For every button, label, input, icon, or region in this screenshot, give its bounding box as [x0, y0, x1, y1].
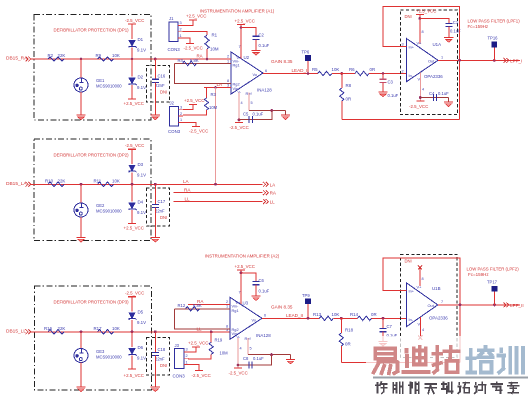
- gain loop wire R4: [175, 63, 232, 65]
- power +2.5_VCC below D6: [128, 368, 136, 370]
- wire J2 pin1 to -2.5_VCC: [183, 122, 196, 126]
- svg-text:2: 2: [227, 55, 229, 59]
- op-amp U2 INA128 triangle: [231, 52, 263, 94]
- wire R18 to bottom feedback wire: [340, 346, 342, 363]
- svg-text:In-: In-: [409, 317, 414, 322]
- svg-text:-2.5_VCC: -2.5_VCC: [125, 143, 144, 148]
- svg-text:C18: C18: [158, 347, 166, 352]
- svg-text:Vo: Vo: [252, 318, 257, 323]
- svg-text:0.1uF: 0.1uF: [438, 91, 449, 96]
- svg-text:C7: C7: [387, 324, 393, 329]
- svg-text:7: 7: [441, 300, 443, 304]
- wire U3 output LEAD_II: [262, 317, 319, 319]
- gas tube GE3 stem: [80, 332, 82, 349]
- junction node R13/R18: [340, 317, 343, 320]
- svg-text:D5: D5: [138, 310, 144, 315]
- svg-text:C2: C2: [259, 33, 265, 38]
- svg-text:INSTRUMENTATION AMPLIFIER (A2): INSTRUMENTATION AMPLIFIER (A2): [205, 254, 280, 259]
- svg-text:V+: V+: [417, 285, 423, 290]
- svg-text:10K: 10K: [332, 312, 340, 317]
- svg-text:R14: R14: [350, 312, 359, 317]
- svg-text:10K: 10K: [112, 326, 120, 331]
- wire Ref to ground A2: [248, 354, 291, 356]
- ground C16: [151, 114, 160, 116]
- svg-text:+2.5_VCC: +2.5_VCC: [184, 98, 204, 103]
- svg-text:D3: D3: [138, 162, 144, 167]
- svg-text:INSTRUMENTATION AMPLIFIER (A1): INSTRUMENTATION AMPLIFIER (A1): [200, 9, 275, 14]
- power -2.5_VCC J2: [192, 126, 200, 128]
- svg-text:CON3: CON3: [168, 47, 181, 52]
- ground C4: [444, 101, 453, 103]
- svg-text:D2: D2: [138, 75, 144, 80]
- svg-text:22nF: 22nF: [155, 83, 165, 88]
- svg-text:0.1uF: 0.1uF: [253, 112, 264, 117]
- svg-text:R4: R4: [178, 58, 184, 63]
- svg-text:D6: D6: [138, 345, 144, 350]
- power -2.5_VCC J3: [195, 370, 203, 372]
- svg-text:22nF: 22nF: [155, 357, 165, 362]
- wire GE3 to ground: [80, 363, 82, 387]
- svg-text:1: 1: [227, 59, 229, 63]
- wire R14 to In-: [372, 317, 407, 319]
- svg-text:9.1V: 9.1V: [137, 320, 146, 325]
- svg-text:10K: 10K: [112, 178, 120, 183]
- low pass filter LPF2 dashed box: [401, 254, 458, 357]
- svg-text:GAIN 8.35: GAIN 8.35: [271, 304, 293, 309]
- capacitor C8 0.1uF: [248, 362, 250, 369]
- svg-text:-2.5_VCC: -2.5_VCC: [125, 291, 144, 296]
- ground C1: [444, 37, 453, 39]
- gas tube GE1 stem top: [80, 59, 82, 78]
- defibrillator protection block DP2 dashed box: [34, 139, 151, 240]
- svg-text:10K: 10K: [112, 53, 120, 58]
- svg-text:In+: In+: [409, 44, 415, 49]
- svg-text:0R: 0R: [370, 67, 376, 72]
- wire net RA main horizontal: [31, 58, 226, 60]
- power +2.5_VCC below D2: [128, 98, 136, 100]
- watermark big char 2: [405, 350, 409, 352]
- junction node D3/D4: [131, 183, 134, 186]
- junction node V- C8: [237, 364, 240, 367]
- wire Ref pin5 U2: [248, 93, 250, 111]
- svg-text:D1: D1: [138, 37, 144, 42]
- svg-text:LEAD_I: LEAD_I: [292, 68, 308, 73]
- svg-text:C8: C8: [243, 356, 249, 361]
- svg-text:R19: R19: [215, 337, 223, 342]
- svg-text:OPA2336: OPA2336: [429, 316, 448, 321]
- svg-text:0.1uF: 0.1uF: [253, 356, 264, 361]
- wire J1 pin3 to +2.5_VCC: [183, 20, 194, 25]
- power +2.5_VCC below D4: [128, 223, 136, 225]
- capacitor C18 DNI dashed box: [147, 338, 170, 376]
- svg-text:J1: J1: [169, 16, 174, 21]
- pin 2 stub U3 with RA stub wire: [188, 303, 230, 305]
- wire C1 to ground: [448, 27, 450, 38]
- wire feedback red box LPF2: [383, 258, 460, 363]
- svg-text:0R: 0R: [371, 312, 377, 317]
- svg-text:1: 1: [186, 360, 188, 364]
- wire bottom feedback LPF1: [342, 119, 460, 121]
- svg-text:8: 8: [422, 277, 424, 281]
- wire LL to C18: [154, 332, 156, 352]
- svg-text:6.8K: 6.8K: [190, 58, 199, 63]
- svg-text:+2.5_VCC: +2.5_VCC: [235, 264, 255, 269]
- wire C2 to ground: [255, 39, 257, 50]
- svg-text:0.1uF: 0.1uF: [259, 43, 270, 48]
- svg-text:INA128: INA128: [257, 88, 272, 93]
- wire to C6: [241, 273, 256, 282]
- wire C16 to ground: [154, 82, 156, 114]
- svg-text:TP9: TP9: [302, 293, 310, 298]
- svg-text:R8: R8: [346, 83, 352, 88]
- wire R3 to J2 pin2: [183, 110, 207, 115]
- svg-text:Rg1: Rg1: [232, 308, 239, 313]
- svg-text:10M: 10M: [220, 350, 229, 355]
- wire U1B V+ pin8 with no-ERC X: [419, 269, 421, 287]
- wire J3 pin1 to -2.5_VCC: [189, 365, 200, 371]
- wire V- pin4 U3: [237, 338, 239, 368]
- svg-text:U1A: U1A: [433, 42, 442, 47]
- resistor R3 10M bias: [206, 88, 208, 99]
- wire to C2: [241, 28, 256, 37]
- svg-text:U1B: U1B: [432, 286, 441, 291]
- svg-text:DNI: DNI: [160, 90, 167, 95]
- wire R1 to RA wire: [206, 49, 208, 59]
- wire D2 to +2.5_VCC: [131, 85, 133, 99]
- svg-text:GE1: GE1: [96, 78, 105, 83]
- pin 8 stub U3: [225, 328, 230, 330]
- junction node V- C5: [238, 118, 241, 121]
- junction node C7: [382, 317, 385, 320]
- svg-text:1: 1: [226, 305, 228, 309]
- svg-text:OPA2336: OPA2336: [424, 74, 443, 79]
- junction node C2 branch: [240, 26, 243, 29]
- svg-text:3: 3: [180, 106, 182, 110]
- watermark big char 1: [375, 347, 395, 351]
- svg-text:+2.5_VCC: +2.5_VCC: [124, 226, 144, 231]
- watermark background: [366, 336, 528, 398]
- svg-text:DNI: DNI: [160, 215, 167, 220]
- svg-text:2: 2: [180, 112, 182, 116]
- svg-text:9.1V: 9.1V: [137, 172, 146, 177]
- svg-text:DB15_LL: DB15_LL: [6, 328, 26, 334]
- svg-text:R6: R6: [349, 67, 355, 72]
- svg-text:DEFIBRILLATOR PROTECTION (DP2): DEFIBRILLATOR PROTECTION (DP2): [54, 153, 130, 158]
- wire net LA main horizontal: [31, 183, 263, 185]
- wire U2 output LEAD_I: [263, 73, 318, 75]
- resistor R18 vertical: [340, 318, 342, 333]
- svg-text:C4: C4: [429, 91, 435, 96]
- wire J1 pin2 to R1: [183, 32, 208, 35]
- junction node C6 branch: [240, 271, 243, 274]
- wire U1A output: [438, 59, 520, 61]
- resistor R8 vertical: [341, 74, 343, 89]
- capacitor C3 0.1uF: [382, 74, 384, 80]
- svg-text:R1: R1: [212, 33, 218, 38]
- svg-text:-2.5_VCC: -2.5_VCC: [184, 46, 203, 51]
- pin 8 stub U2: [226, 83, 231, 85]
- svg-text:2: 2: [180, 28, 182, 32]
- svg-text:-2.5_VCC: -2.5_VCC: [125, 18, 144, 23]
- junction node LA / C17: [154, 183, 157, 186]
- svg-text:9.1V: 9.1V: [137, 356, 146, 361]
- wire C3 to ground: [382, 82, 384, 91]
- wire RA to C16: [154, 59, 156, 79]
- svg-text:R5: R5: [312, 67, 318, 72]
- capacitor C6 0.1uF: [253, 281, 260, 283]
- power -2.5_VCC U1A: [416, 100, 424, 102]
- wire LL to D6: [131, 332, 133, 347]
- svg-text:LPF_II: LPF_II: [510, 303, 524, 308]
- svg-text:R16: R16: [44, 326, 53, 331]
- junction node C3: [382, 72, 385, 75]
- power +2.5_VCC J1: [189, 19, 197, 21]
- wire VCC to U1A pin8: [419, 15, 421, 45]
- wire D6 to +2.5_VCC: [131, 356, 133, 370]
- wire net RA stub: [174, 192, 263, 194]
- svg-text:DEFIBRILLATOR PROTECTION (DP1): DEFIBRILLATOR PROTECTION (DP1): [54, 28, 130, 33]
- svg-text:U3: U3: [243, 301, 249, 306]
- gas discharge tube GE3: [74, 349, 88, 363]
- svg-text:DB15_LA: DB15_LA: [6, 181, 27, 187]
- junction node VCC C1: [418, 17, 421, 20]
- svg-text:Fc=159Hz: Fc=159Hz: [468, 272, 489, 277]
- wire R6 to In-: [369, 73, 407, 75]
- port RA out: [263, 190, 268, 195]
- ground C7: [378, 341, 387, 343]
- wire GE2 to ground: [80, 217, 82, 237]
- svg-text:4: 4: [240, 346, 242, 350]
- svg-text:+2.5_VCC: +2.5_VCC: [188, 341, 208, 346]
- svg-text:LL: LL: [270, 200, 276, 205]
- svg-text:9.1V: 9.1V: [137, 48, 146, 53]
- wire C18 to ground: [154, 356, 156, 387]
- svg-text:22nF: 22nF: [155, 209, 165, 214]
- capacitor C17 22nF: [152, 203, 159, 205]
- svg-text:DNI: DNI: [405, 259, 412, 264]
- svg-text:3: 3: [180, 21, 182, 25]
- svg-text:V-: V-: [418, 77, 422, 82]
- diode D1 zener 9.1V: [129, 41, 135, 47]
- svg-text:7: 7: [239, 45, 241, 49]
- wire C6 to ground: [255, 285, 257, 296]
- svg-text:LA: LA: [183, 179, 190, 184]
- svg-text:9.1V: 9.1V: [137, 85, 146, 90]
- wire V+ pin7 U2: [240, 25, 242, 59]
- wire net LL main horizontal: [31, 331, 231, 333]
- wire Ref to ground: [249, 110, 286, 112]
- svg-text:V-: V-: [237, 335, 241, 340]
- svg-text:R13: R13: [313, 312, 322, 317]
- svg-text:MCS9010000: MCS9010000: [96, 84, 122, 89]
- junction node TP6: [307, 72, 310, 75]
- svg-text:2: 2: [186, 354, 188, 358]
- svg-text:LPF_I: LPF_I: [510, 58, 522, 63]
- junction node C4: [419, 96, 422, 99]
- ground Ref U2: [281, 114, 290, 116]
- junction node LA bus join: [214, 183, 217, 186]
- wire R5 to R6: [332, 73, 355, 75]
- junction node output/feedback LPF2: [459, 304, 462, 307]
- capacitor C18 22nF: [152, 351, 159, 353]
- svg-text:10K: 10K: [332, 67, 340, 72]
- svg-text:22K: 22K: [58, 53, 66, 58]
- junction node LA bus: [214, 86, 217, 89]
- svg-text:-2.5_VCC: -2.5_VCC: [230, 125, 249, 130]
- svg-text:R12: R12: [178, 303, 186, 308]
- svg-text:DNI: DNI: [160, 363, 167, 368]
- svg-text:RA: RA: [184, 187, 191, 192]
- wire C7 to ground: [382, 332, 384, 341]
- svg-text:Fc=159Hz: Fc=159Hz: [468, 24, 489, 29]
- wire D3 to LA wire: [131, 172, 133, 184]
- wire RA to D2: [131, 59, 133, 77]
- gain loop wire R12: [175, 308, 231, 310]
- capacitor C16 DNI dashed box: [147, 66, 170, 103]
- svg-text:Rg1: Rg1: [233, 63, 240, 68]
- svg-text:V-: V-: [238, 89, 242, 94]
- wire feedback red box LPF1: [383, 7, 460, 120]
- svg-text:0R: 0R: [346, 97, 352, 102]
- wire bottom feedback LPF2: [341, 362, 460, 364]
- wire C4 to ground: [448, 98, 450, 102]
- op-amp U1B OPA2336 triangle: [407, 283, 438, 327]
- svg-text:J2: J2: [170, 101, 175, 106]
- svg-text:CON3: CON3: [173, 374, 186, 379]
- ground GE1: [76, 114, 85, 116]
- svg-text:TP16: TP16: [488, 36, 499, 41]
- svg-text:0.1uF: 0.1uF: [259, 288, 270, 293]
- wire U1B output: [438, 304, 520, 306]
- gas discharge tube GE2: [74, 203, 88, 217]
- svg-text:10M: 10M: [209, 105, 218, 110]
- wire J2 pin3 to +2.5_VCC: [183, 105, 193, 110]
- wire D4 to +2.5_VCC: [131, 210, 133, 224]
- svg-text:LL: LL: [185, 196, 191, 201]
- junction node LL / GE3: [80, 330, 83, 333]
- svg-text:8: 8: [422, 30, 424, 34]
- svg-text:10M: 10M: [210, 47, 219, 52]
- wire R13 to R14: [333, 317, 357, 319]
- svg-text:R17: R17: [94, 326, 103, 331]
- svg-text:5: 5: [250, 346, 252, 350]
- svg-text:CON3: CON3: [168, 129, 181, 134]
- junction node R19 on LL: [210, 330, 213, 333]
- junction node Ref/C5: [271, 109, 274, 112]
- wire net LL stub: [174, 201, 263, 203]
- svg-text:C17: C17: [158, 199, 166, 204]
- svg-text:4: 4: [241, 101, 243, 105]
- svg-text:MCS9010000: MCS9010000: [96, 355, 122, 360]
- svg-text:22K: 22K: [58, 178, 66, 183]
- capacitor C7 0.1uF: [382, 318, 384, 328]
- wire GE1 to ground: [80, 92, 82, 115]
- svg-text:-2.5_VCC: -2.5_VCC: [409, 104, 428, 109]
- ground GE3: [76, 386, 85, 388]
- svg-text:DB15_RA: DB15_RA: [6, 56, 28, 62]
- port LL out: [263, 199, 268, 204]
- power -2.5_VCC U2: [235, 122, 243, 124]
- svg-text:4: 4: [422, 88, 424, 92]
- pin 1 stub U2: [226, 63, 231, 65]
- svg-text:D4: D4: [138, 200, 144, 205]
- svg-text:1: 1: [441, 55, 443, 59]
- capacitor C16 22nF: [152, 78, 159, 80]
- svg-text:U2: U2: [244, 55, 250, 60]
- svg-text:Out: Out: [428, 303, 435, 308]
- svg-text:Vo: Vo: [253, 72, 258, 77]
- svg-text:LL: LL: [197, 327, 203, 332]
- junction node D1/D2: [131, 58, 134, 61]
- svg-text:+2.5_VCC: +2.5_VCC: [235, 19, 255, 24]
- watermark subtitle characters: [377, 383, 379, 393]
- svg-text:R18: R18: [345, 327, 354, 332]
- svg-text:3: 3: [186, 348, 188, 352]
- svg-text:GAIN 8.35: GAIN 8.35: [271, 59, 293, 64]
- svg-text:+2.5_VCC: +2.5_VCC: [124, 373, 144, 378]
- svg-text:LA: LA: [270, 182, 277, 187]
- ground C17: [151, 237, 160, 239]
- ground C2: [251, 50, 260, 52]
- watermark big char 3: [435, 347, 439, 370]
- svg-text:5: 5: [251, 101, 253, 105]
- svg-text:C16: C16: [158, 74, 166, 79]
- wire D5 to LL wire: [131, 320, 133, 332]
- wire C5 run: [239, 111, 272, 120]
- svg-text:0R: 0R: [345, 341, 351, 346]
- port LPF_II output: [504, 303, 509, 308]
- svg-text:V-: V-: [418, 321, 422, 326]
- svg-text:1: 1: [180, 34, 182, 38]
- svg-text:GE2: GE2: [96, 203, 105, 208]
- op-amp U1A OPA2336 triangle: [407, 39, 439, 82]
- svg-text:TP17: TP17: [487, 280, 498, 285]
- svg-text:-2.5_VCC: -2.5_VCC: [189, 129, 208, 134]
- svg-text:-2.5_VCC: -2.5_VCC: [229, 370, 248, 375]
- svg-text:7: 7: [239, 290, 241, 294]
- junction node R5/R8: [340, 72, 343, 75]
- low pass filter LPF1 dashed box: [401, 10, 458, 115]
- gas discharge tube GE1: [74, 78, 88, 92]
- junction node D5/D6: [131, 330, 134, 333]
- svg-text:C5: C5: [243, 112, 249, 117]
- wire R8 to bottom feedback wire: [341, 101, 343, 120]
- wire LA to D4: [131, 184, 133, 201]
- wire C17 to ground: [154, 208, 156, 237]
- svg-text:GE3: GE3: [96, 349, 105, 354]
- svg-text:2: 2: [402, 69, 404, 73]
- wire U1B V- pin4 with no-ERC X: [419, 317, 421, 337]
- junction node output/feedback: [458, 59, 461, 62]
- watermark big char 5: [499, 349, 503, 351]
- svg-text:C3: C3: [388, 80, 394, 85]
- defibrillator protection block DP3 dashed box: [34, 286, 151, 390]
- diode D3 zener 9.1V: [129, 165, 135, 171]
- svg-text:In-: In-: [409, 73, 414, 78]
- wire V+ pin7 U3: [240, 270, 242, 304]
- wire C8 run: [238, 355, 272, 365]
- diode D4 zener 9.1V: [129, 203, 135, 209]
- capacitor C17 DNI dashed box: [147, 188, 170, 226]
- diode D5 zener 9.1V: [129, 313, 135, 319]
- gas tube GE2 stem: [80, 184, 82, 203]
- wire J3 pin3 to +2.5_VCC: [189, 347, 197, 352]
- svg-text:9.1V: 9.1V: [137, 210, 146, 215]
- op-amp U3 INA128 triangle: [230, 297, 262, 339]
- svg-text:0.1uF: 0.1uF: [388, 93, 399, 98]
- svg-text:8: 8: [227, 79, 229, 83]
- svg-text:+2.5_VCC: +2.5_VCC: [186, 14, 206, 19]
